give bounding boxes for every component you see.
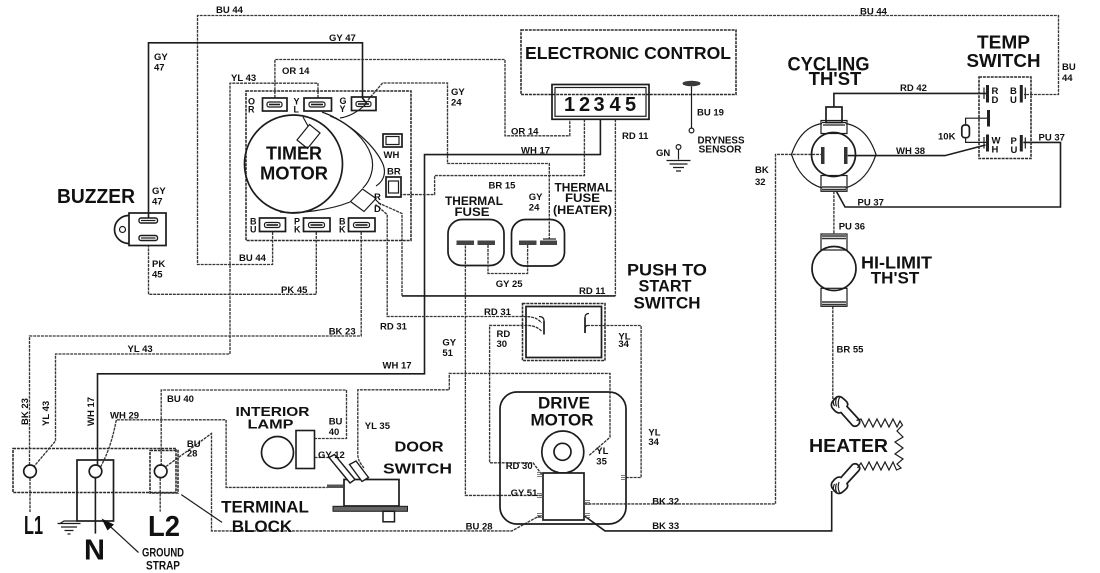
svg-text:WH: WH (384, 150, 400, 161)
svg-text:1: 1 (564, 94, 575, 116)
svg-text:RD 42: RD 42 (900, 83, 927, 94)
svg-text:34: 34 (648, 437, 659, 448)
hi-limit thermostat bottom terminal (821, 288, 847, 306)
svg-text:28: 28 (187, 449, 198, 460)
svg-text:47: 47 (154, 63, 165, 74)
svg-text:BR 15: BR 15 (489, 181, 517, 192)
svg-text:OR 14: OR 14 (282, 66, 310, 77)
svg-text:PU 37: PU 37 (858, 198, 884, 209)
heater insulator lower (831, 464, 859, 494)
svg-text:5: 5 (625, 94, 636, 116)
electronic control connector 12345 (552, 85, 649, 120)
svg-text:K: K (294, 225, 301, 235)
wire GY12 (315, 457, 332, 459)
svg-text:BU 28: BU 28 (466, 522, 493, 533)
svg-text:U: U (250, 225, 257, 235)
svg-text:BK 32: BK 32 (652, 497, 679, 508)
wire RD31 (376, 205, 542, 324)
svg-text:GY: GY (154, 52, 168, 63)
door switch left contact (327, 485, 344, 489)
svg-text:BU 44: BU 44 (216, 5, 244, 16)
wire N stub (94, 478, 96, 534)
svg-text:BR: BR (387, 167, 401, 178)
timer motor box (246, 91, 411, 241)
svg-text:ELECTRONIC CONTROL: ELECTRONIC CONTROL (525, 43, 731, 63)
temp switch terminal PU (1011, 135, 1026, 156)
cycling thermostat neck (821, 121, 847, 134)
svg-text:RD 11: RD 11 (579, 286, 606, 297)
temp switch terminal RD (984, 85, 999, 106)
wire BK33 (585, 491, 832, 531)
svg-text:MOTOR: MOTOR (260, 164, 328, 184)
svg-text:BU: BU (1062, 62, 1076, 73)
hi-limit thermostat top terminal (821, 234, 847, 250)
svg-text:D: D (992, 95, 999, 106)
svg-text:STRAP: STRAP (146, 559, 180, 573)
svg-text:Y: Y (340, 104, 346, 114)
cycling thermostat bottom terminal (821, 176, 847, 192)
svg-text:K: K (339, 225, 346, 235)
timer motor circle (245, 115, 343, 213)
svg-text:30: 30 (497, 339, 508, 350)
svg-text:RD 11: RD 11 (622, 131, 649, 142)
temp switch terminal BU (1010, 85, 1025, 106)
interior lamp socket (296, 431, 315, 469)
svg-text:WH 17: WH 17 (383, 361, 412, 372)
svg-text:BU 40: BU 40 (167, 394, 194, 405)
svg-text:51: 51 (442, 348, 453, 359)
wire RD30 (490, 325, 543, 476)
svg-text:RD 31: RD 31 (484, 307, 512, 318)
svg-text:TH'ST: TH'ST (809, 68, 862, 89)
cycling thermostat body circle (812, 133, 856, 177)
svg-text:GY: GY (442, 338, 456, 349)
svg-text:YL 43: YL 43 (41, 401, 52, 426)
svg-text:MOTOR: MOTOR (531, 411, 594, 430)
timer terminal WH (383, 134, 402, 161)
svg-text:PU 37: PU 37 (1039, 133, 1065, 144)
door switch lever YL35 (350, 461, 369, 482)
thermal fuse terminals (457, 241, 496, 246)
timer belt curves (322, 112, 384, 186)
svg-text:24: 24 (529, 203, 540, 214)
wire L1 stub (29, 478, 31, 512)
svg-text:BK 23: BK 23 (329, 327, 356, 338)
svg-text:N: N (84, 535, 105, 567)
timer terminal BR (374, 167, 401, 216)
svg-text:L: L (294, 105, 300, 115)
dryness sensor GN electrode (667, 145, 691, 171)
thermal fuse body (448, 220, 504, 266)
terminal L2 (154, 465, 167, 478)
svg-text:BU 44: BU 44 (239, 253, 267, 264)
svg-text:OR 14: OR 14 (511, 127, 539, 138)
cycling thermostat top terminal (826, 107, 842, 123)
svg-text:GY: GY (451, 87, 465, 98)
svg-text:2: 2 (579, 94, 590, 116)
svg-text:GY 12: GY 12 (318, 450, 345, 461)
svg-text:TH'ST: TH'ST (871, 269, 920, 288)
svg-text:L2: L2 (148, 511, 180, 543)
thermal fuse heater body (512, 220, 565, 267)
svg-text:HEATER: HEATER (809, 436, 888, 456)
terminal block L2 cell (150, 451, 178, 494)
wire RD11 (614, 119, 616, 296)
svg-text:(HEATER): (HEATER) (553, 205, 612, 217)
svg-text:TIMER: TIMER (266, 144, 322, 164)
svg-text:WH 17: WH 17 (521, 146, 550, 157)
timer terminal BK (339, 217, 375, 235)
temp switch wiper contact (987, 110, 990, 127)
svg-text:BU 44: BU 44 (860, 7, 888, 18)
svg-text:32: 32 (755, 177, 766, 188)
door switch lever GY12 (329, 455, 355, 484)
svg-text:GY 47: GY 47 (329, 33, 356, 44)
timer cam upper (297, 117, 320, 149)
drive motor rotor (542, 431, 584, 473)
timer terminal OR (248, 97, 287, 115)
svg-text:WH 17: WH 17 (86, 397, 97, 426)
terminal N (89, 465, 102, 478)
heater insulator upper (831, 397, 859, 427)
ground symbol at N (58, 521, 81, 534)
svg-text:RD 31: RD 31 (380, 322, 408, 333)
wire BU40 (161, 390, 346, 466)
hi-limit thermostat body (812, 247, 856, 291)
wire BU44 (198, 16, 1059, 265)
svg-text:40: 40 (329, 427, 340, 438)
wire BK32 (585, 154, 821, 504)
svg-text:PU 36: PU 36 (839, 222, 865, 233)
cycling thermostat petals (792, 124, 823, 189)
drive motor terminal pads (537, 473, 626, 518)
svg-text:34: 34 (618, 339, 629, 350)
wire GY25 (488, 245, 528, 274)
svg-text:SWITCH: SWITCH (967, 50, 1041, 71)
svg-text:35: 35 (596, 457, 607, 468)
push to start contact left (543, 321, 545, 335)
svg-text:BK 33: BK 33 (652, 521, 679, 532)
svg-text:RD 30: RD 30 (506, 461, 533, 472)
svg-text:45: 45 (152, 270, 163, 281)
temp switch terminal WH (984, 135, 1001, 156)
svg-text:GY: GY (529, 192, 543, 203)
svg-text:L1: L1 (24, 510, 43, 540)
buzzer (115, 213, 166, 246)
timer terminal PK (294, 217, 330, 235)
wire PU36 (833, 191, 835, 234)
svg-text:SENSOR: SENSOR (699, 145, 743, 156)
temp switch box (979, 77, 1031, 159)
svg-text:TERMINAL: TERMINAL (221, 498, 309, 517)
wire BK23 (30, 232, 362, 465)
svg-text:WH 38: WH 38 (896, 146, 925, 157)
wire PK45 (149, 232, 317, 294)
push to start contact right (584, 318, 586, 334)
terminal block leader (181, 495, 222, 523)
cycling thermostat contacts (821, 147, 825, 164)
svg-text:3: 3 (593, 94, 604, 116)
svg-text:SWITCH: SWITCH (634, 294, 701, 313)
svg-text:H: H (992, 145, 999, 156)
timer terminal BU (250, 217, 286, 235)
svg-text:YL: YL (596, 446, 608, 457)
ground strap arrow (102, 519, 139, 553)
svg-text:4: 4 (609, 94, 621, 116)
svg-text:GN: GN (656, 148, 670, 159)
wire BR55 (832, 306, 834, 399)
svg-text:GROUND: GROUND (142, 546, 184, 560)
svg-text:24: 24 (451, 98, 462, 109)
svg-text:U: U (1011, 145, 1018, 156)
timer terminal YL (294, 97, 332, 115)
door switch base (333, 506, 408, 522)
svg-text:47: 47 (152, 197, 163, 208)
svg-text:BK 23: BK 23 (20, 398, 31, 425)
wire YL35 (358, 373, 610, 468)
svg-text:D: D (374, 204, 381, 215)
svg-text:YL 35: YL 35 (365, 421, 391, 432)
svg-text:U: U (1010, 95, 1017, 106)
terminal L1 (24, 465, 37, 478)
temp switch 10K resistor (962, 118, 987, 142)
interior lamp bulb (262, 437, 294, 469)
svg-text:BU: BU (329, 417, 343, 428)
drive motor body (500, 392, 626, 524)
svg-text:BLOCK: BLOCK (232, 517, 293, 536)
svg-text:YL 43: YL 43 (231, 73, 256, 84)
drive motor centrifugal switch (543, 473, 584, 520)
wire PU37 (837, 142, 1061, 207)
svg-text:PK 45: PK 45 (281, 285, 308, 296)
svg-text:DOOR: DOOR (395, 439, 444, 456)
svg-text:R: R (248, 105, 255, 115)
timer cam lower (351, 189, 382, 212)
svg-text:YL 43: YL 43 (128, 344, 153, 355)
svg-text:PK: PK (152, 259, 165, 270)
door switch body (344, 480, 399, 507)
timer terminal GY (340, 96, 377, 114)
svg-text:WH 29: WH 29 (110, 411, 139, 422)
push to start switch box (523, 304, 606, 361)
wire RD42 (834, 93, 986, 107)
svg-text:FUSE: FUSE (565, 193, 600, 205)
svg-text:GY 25: GY 25 (496, 279, 523, 290)
svg-text:R: R (374, 192, 381, 203)
svg-text:BK: BK (755, 165, 769, 176)
heater coil (857, 419, 904, 470)
dryness sensor plate (683, 81, 701, 133)
svg-text:GY 51: GY 51 (511, 488, 538, 499)
wire BU28 (166, 434, 544, 531)
svg-text:SWITCH: SWITCH (383, 461, 452, 478)
wire GY47 (149, 43, 368, 218)
svg-text:10K: 10K (938, 132, 956, 143)
svg-text:BR 55: BR 55 (837, 345, 865, 356)
wire GY24 (368, 83, 549, 239)
svg-text:GY: GY (152, 186, 166, 197)
electronic control box (521, 30, 736, 95)
wire WH29 (101, 420, 328, 488)
wire OR14 (275, 60, 570, 136)
wire YL43 (34, 83, 319, 467)
svg-text:BU 19: BU 19 (697, 108, 724, 119)
wire YL34 (587, 326, 641, 478)
terminal block body (13, 449, 176, 493)
svg-text:LAMP: LAMP (248, 417, 294, 432)
svg-text:FUSE: FUSE (455, 207, 490, 219)
terminal block N strap box (77, 460, 114, 521)
wire L2 stub (159, 478, 161, 512)
svg-text:44: 44 (1062, 73, 1073, 84)
svg-text:BUZZER: BUZZER (57, 186, 136, 208)
thermal fuse heater terminals (519, 239, 557, 245)
wire WH17 (98, 119, 601, 465)
wire WH38 (848, 145, 986, 156)
wire BR15 (401, 119, 585, 194)
wire GY51 (465, 246, 543, 496)
